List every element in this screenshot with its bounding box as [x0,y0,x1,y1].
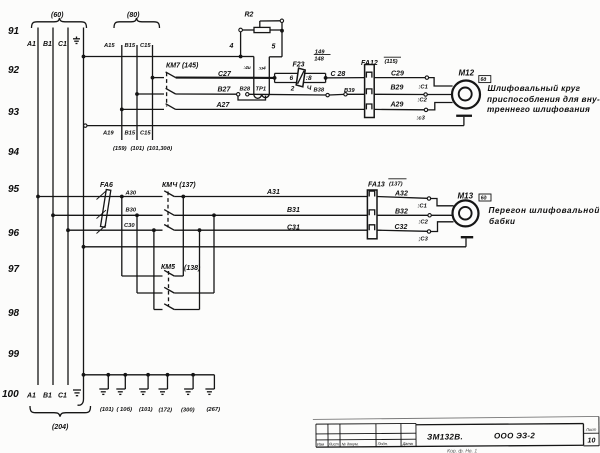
connector B28 [237,87,266,101]
svg-text:В29: В29 [391,85,404,92]
note text M12 [487,84,600,114]
svg-text:С15: С15 [140,131,151,137]
svg-text::С1: :С1 [419,84,428,90]
note text M13 [489,206,600,226]
wire ground return M13 [82,245,466,249]
svg-text:ООО ЭЗ-2: ООО ЭЗ-2 [494,431,535,440]
svg-text:В38: В38 [314,87,325,93]
column A15 [102,43,122,140]
svg-text:Шлифовальный круг: Шлифовальный круг [488,84,581,93]
wire number 149/148 [314,49,331,62]
svg-text:Лист: Лист [585,427,597,432]
svg-text:99: 99 [8,349,20,360]
earth stub 2 (106) [116,373,132,413]
wire from bus N to node 4 at y 56.5 [82,55,254,59]
marker box M12 [479,76,491,84]
contactor KM7 label [166,63,199,70]
svg-text:Ч: Ч [307,85,312,92]
svg-text:(101): (101) [139,407,153,413]
svg-text:С30: С30 [124,223,135,229]
wire B32 [377,209,431,226]
svg-text:В1: В1 [43,393,52,400]
row label 97 [8,264,20,275]
svg-text:(159): (159) [113,146,127,152]
svg-text:100: 100 [2,389,19,400]
svg-text:148: 148 [314,56,324,62]
svg-text:С15: С15 [140,43,151,49]
svg-text::8: :8 [306,75,312,82]
bus B1 [43,28,53,400]
svg-text:С32: С32 [395,224,408,231]
svg-text:(60): (60) [51,12,64,19]
ground symbol bottom of bus N [73,390,81,396]
wire KM5 bypass verticals right [183,197,214,310]
svg-text:Изм: Изм [317,442,325,447]
breaker FA6 [97,182,113,234]
svg-text:Кор. ф. Нв. 1: Кор. ф. Нв. 1 [447,448,477,453]
resistor R2 [239,12,284,33]
wire B30/B31 row B [51,207,367,217]
svg-text:В15: В15 [125,43,136,49]
svg-text:(137): (137) [389,181,403,187]
svg-text:93: 93 [8,107,20,118]
svg-text::С1: :С1 [418,204,427,210]
svg-text:92: 92 [8,65,20,76]
column C15 [140,43,153,140]
contact KM5.3 [154,304,200,310]
bus A1 [26,28,38,400]
earth stub 5 (300) [181,373,195,414]
terminal B38 [314,87,330,97]
node 5 path [269,31,282,57]
svg-text::С2: :С2 [418,98,428,104]
svg-text:КМ7 (145): КМ7 (145) [166,63,199,70]
bus N ground [78,28,84,406]
svg-text:(101): (101) [100,407,114,413]
svg-text:В39: В39 [344,88,355,94]
svg-text:2: 2 [290,85,295,92]
svg-text:КМ5: КМ5 [161,264,175,271]
svg-text:98: 98 [8,308,20,319]
svg-text:R2: R2 [245,12,254,19]
earth stub 1 (101) [99,373,113,413]
svg-text:В30: В30 [126,208,137,214]
brace (60) [32,12,87,28]
svg-text:С1: С1 [58,41,67,48]
svg-text:(204): (204) [52,424,69,431]
svg-text:ТР1: ТР1 [256,87,267,93]
wire B27 [176,87,237,95]
svg-text:Подп.: Подп. [378,441,388,446]
svg-text:FA13: FA13 [368,182,385,189]
wire labels :4i :i4 [244,65,267,72]
motor M12 [452,69,480,109]
svg-text:№ докум.: № докум. [342,441,359,446]
ground M12 [456,115,472,126]
svg-text:Дата: Дата [402,441,414,446]
thermal relay FA12 [361,57,401,117]
junction dots KM4 rows [120,195,216,233]
row label 95 [8,184,20,195]
row label 93 [8,107,20,118]
wire C28 [326,71,365,78]
svg-text:5: 5 [272,44,276,51]
row label 100 [2,389,19,400]
svg-text:В32: В32 [395,209,408,216]
svg-text:А30: А30 [125,191,137,197]
wire A27 [176,102,365,109]
contactor KM5 label [161,264,201,272]
row label 94 [8,147,20,158]
svg-text:( 10б): ( 10б) [117,406,133,413]
svg-text:Перегон шлифовальной: Перегон шлифовальной [489,206,600,215]
svg-text:В15: В15 [125,131,136,137]
svg-text:ЗМ132В.: ЗМ132В. [427,432,463,441]
row label 91 [8,26,20,37]
svg-text:В1: В1 [43,41,52,48]
KM7 link dashed [166,73,168,107]
svg-text:(300): (300) [181,408,195,414]
row label 92 [8,65,20,76]
wire A32 [377,191,431,210]
svg-text:А27: А27 [216,102,231,109]
svg-text:(267): (267) [207,407,221,413]
svg-text:(115): (115) [385,59,398,65]
svg-text:КМЧ (137): КМЧ (137) [162,182,196,189]
bus C1 [58,28,68,400]
svg-text:А1: А1 [26,41,36,48]
svg-text:10: 10 [588,437,596,444]
wire A30/A31 row A [36,189,367,198]
svg-text:6д: 6д [481,196,487,202]
svg-text:94: 94 [8,147,20,158]
brace (204) bottom [30,406,91,431]
svg-text:А15: А15 [103,43,115,49]
svg-text::С2: :С2 [419,220,429,226]
svg-text:А31: А31 [266,189,280,196]
svg-text:;С3: ;С3 [419,237,429,243]
svg-text:С31: С31 [287,225,300,232]
wire B27 continuation to B38 [249,93,326,96]
svg-text:А1: А1 [26,393,36,400]
KM4 link dashed [167,192,169,228]
brace (80) [114,12,160,28]
marker box M13 [479,194,491,202]
svg-text:97: 97 [8,264,20,275]
svg-text:(138): (138) [184,265,201,272]
column B15 [125,43,138,140]
earth stub 3 (101) [139,373,153,413]
wire A29 [374,102,427,122]
svg-text:В28: В28 [240,87,251,93]
svg-text::и4: :и4 [259,66,267,72]
svg-text:С27: С27 [218,71,232,78]
svg-text:треннего шлифования: треннего шлифования [487,105,590,114]
row label 98 [8,308,20,319]
motor M13 leads [431,199,454,232]
wire C30/C31 row C [66,223,367,232]
svg-text:(101,30д): (101,30д) [147,146,172,152]
terminal B39 [329,88,364,96]
wire KM5 bypass verticals left [122,197,154,310]
contact KM7.3 row A [120,104,176,112]
svg-text:А29: А29 [390,102,404,109]
title block [313,416,599,453]
ground symbol top of bus N [73,37,80,44]
svg-text:А19: А19 [102,131,114,137]
svg-text::4и: :4и [244,65,251,71]
contact KM7.2 row B [135,88,176,96]
svg-text:91: 91 [8,26,20,37]
svg-text:бабки: бабки [489,216,516,226]
wire B29 [374,85,427,104]
wire A19 ground return M12 [84,124,464,127]
ground M13 [461,236,473,247]
breaker F23 [273,62,328,93]
svg-text:(80): (80) [127,12,140,19]
KM5 link dashed [168,271,170,307]
svg-text:6: 6 [290,75,294,82]
svg-text:М13: М13 [458,192,474,201]
svg-text:95: 95 [8,184,20,195]
wire earth row [82,373,215,389]
svg-text:С 28: С 28 [331,71,346,78]
motor M13 [453,192,479,227]
svg-text:(101): (101) [131,146,145,152]
svg-text:Лист: Лист [328,441,340,446]
svg-text:А32: А32 [394,191,408,198]
motor M12 leads [427,78,452,110]
wire C29 [374,71,428,91]
svg-text:приспособления для вну-: приспособления для вну- [487,94,600,104]
row label 99 [8,349,20,360]
node 4 vertical [229,32,241,57]
svg-text:4: 4 [229,43,234,50]
contactor KM4 label [162,182,196,189]
transformer TP1 [254,57,269,99]
wire C32 [377,224,431,243]
thermal relay FA13 [367,179,406,239]
svg-text:В27: В27 [218,87,232,94]
svg-text:(172): (172) [159,408,173,414]
svg-text:FA12: FA12 [361,60,378,67]
wire C27 [176,71,275,78]
svg-text::с3: :с3 [417,115,426,121]
svg-text:6д: 6д [481,77,487,83]
contact KM7.1 row C [151,72,176,80]
svg-text:М12: М12 [459,69,475,78]
svg-text:96: 96 [8,228,20,239]
row label 96 [8,228,20,239]
column ref labels [113,146,172,152]
svg-text:С29: С29 [391,71,404,78]
earth stub 6 (267) [205,389,220,413]
earth stub 4 (172) [159,373,173,414]
contact KM5.1 [122,270,184,276]
svg-text:В31: В31 [287,207,300,214]
svg-text:С1: С1 [58,393,67,400]
svg-text:FA6: FA6 [100,182,113,189]
contact KM5.2 [137,287,214,293]
